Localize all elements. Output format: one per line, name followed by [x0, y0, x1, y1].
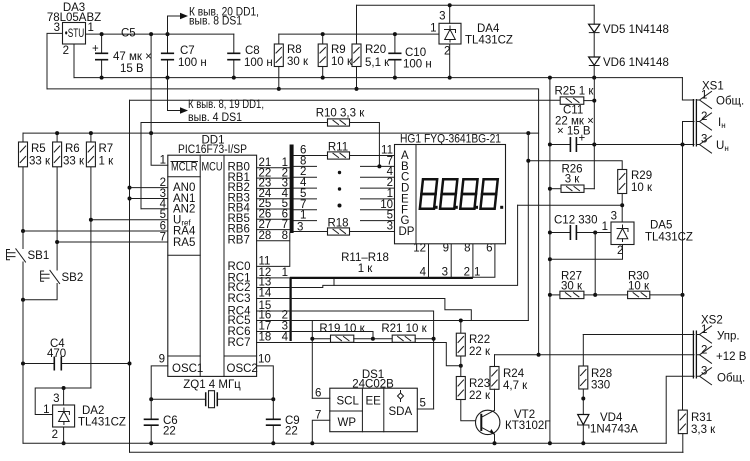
resistor R11 [328, 142, 395, 160]
wire RC5 SCL line [311, 321, 313, 399]
svg-text:1: 1 [474, 267, 480, 279]
junction C6 bottom [149, 441, 153, 445]
junction SB2 to SB1 column [21, 298, 25, 302]
svg-text:2: 2 [701, 111, 707, 123]
microcontroller DD1 PIC16F73 [168, 135, 258, 377]
junction RA5 SB2 [55, 240, 59, 244]
svg-text:1N4743A: 1N4743A [590, 424, 638, 436]
svg-text:RC3: RC3 [228, 293, 251, 305]
capacitor C10 [388, 34, 431, 78]
svg-text:3: 3 [701, 366, 707, 378]
svg-text:К выв. 8, 19 DD1,: К выв. 8, 19 DD1, [188, 99, 264, 111]
wire RA5 line [57, 241, 168, 243]
resistor R30 [595, 271, 682, 299]
svg-text:5: 5 [420, 398, 426, 410]
svg-text:RC7: RC7 [228, 337, 251, 349]
svg-text:VD6 1N4148: VD6 1N4148 [603, 57, 669, 69]
svg-text:× 15 В: × 15 В [557, 126, 591, 138]
svg-text:EE: EE [366, 396, 382, 408]
svg-text:R21 10 к: R21 10 к [381, 323, 427, 335]
svg-text:DA5: DA5 [650, 220, 672, 232]
wire +5V rail from DA3 output [86, 33, 234, 35]
junction C11 left [548, 143, 552, 147]
junction R7 top [89, 131, 93, 135]
svg-text:WP: WP [338, 417, 357, 429]
junction R9 bottom [321, 76, 325, 80]
junction C10 bottom [393, 76, 397, 80]
resistor R23 [456, 366, 491, 421]
junction AN0 on sense column [128, 186, 132, 190]
svg-text:8: 8 [282, 230, 288, 242]
svg-text:DP: DP [399, 226, 415, 238]
resistor R20 [352, 5, 390, 89]
svg-text:OSC2: OSC2 [227, 363, 258, 375]
junction R27 left [548, 293, 552, 297]
wire AN1 line [130, 198, 168, 200]
resistor R7 [86, 133, 114, 388]
junction C11 right [592, 143, 596, 147]
resistor R27 [550, 271, 595, 299]
DS1 pin7 wire [312, 420, 330, 443]
junction R22 top [459, 319, 463, 323]
node column from ground rail left [549, 78, 551, 444]
wire +5V feed down to pullup rail [150, 34, 152, 133]
wire AN2 line [141, 208, 168, 210]
wire R29 top line [528, 161, 622, 170]
connector XS1 [693, 81, 744, 154]
junction R6 top [55, 131, 59, 135]
resistor R21 [381, 323, 433, 342]
wire DA3 pin2 to ground rail [73, 44, 75, 78]
wire DA3 pin3 input to +12 line [47, 33, 63, 89]
svg-text:1: 1 [300, 210, 306, 222]
junction pullup rail +5 feed [149, 131, 153, 135]
wire RA4 line [23, 230, 168, 232]
svg-text:1: 1 [602, 221, 608, 233]
node column VD6 R25 [593, 78, 595, 189]
junction C10 top [393, 32, 397, 36]
svg-text:R6: R6 [65, 143, 80, 155]
resistor R19 [312, 323, 392, 342]
svg-text:28: 28 [259, 230, 272, 242]
svg-text:+: + [92, 43, 99, 55]
ellipsis dots for R12-R17 [338, 171, 342, 208]
svg-text:MCLR: MCLR [171, 162, 198, 174]
junction DA4 pin2 on ground rail [448, 76, 452, 80]
svg-text:Упр.: Упр. [717, 331, 740, 343]
connector XS2 [693, 315, 746, 385]
junction R9 top [321, 32, 325, 36]
resistor R18 [327, 218, 394, 236]
junction R29 bottom [620, 203, 624, 207]
wire R10 to segment B [350, 123, 380, 167]
junction C9 bottom [271, 441, 275, 445]
display pin numbers left column [380, 145, 393, 233]
DS1 pin5 wire [417, 408, 433, 410]
svg-text:3: 3 [387, 221, 393, 233]
junction node column ground [548, 441, 552, 445]
svg-text:15 В: 15 В [120, 63, 144, 75]
junction crystal left [149, 397, 153, 401]
svg-text:2: 2 [701, 344, 707, 356]
resistor R31 [678, 410, 716, 452]
svg-text:+12 В: +12 В [716, 351, 747, 363]
svg-text:КТ3102Г: КТ3102Г [505, 420, 551, 432]
zener diode VD4 1N4743A [578, 412, 639, 443]
svg-text:30 к: 30 к [287, 56, 309, 68]
display segment stubs right [361, 166, 395, 220]
junction C8 bottom [232, 76, 236, 80]
svg-text:1: 1 [701, 324, 707, 336]
junction R19 left [310, 337, 314, 341]
resistor R28 [579, 335, 612, 415]
junction C4 left on SB column [21, 362, 25, 366]
junction VD6 on ground rail [592, 76, 596, 80]
wire RC4 SDA line [257, 311, 434, 409]
svg-text:R31: R31 [691, 412, 712, 424]
wire R25 node line [130, 99, 561, 101]
junction R8 bottom on +12 line [277, 87, 281, 91]
bus left stubs to R11-R18 [294, 156, 328, 232]
svg-text:R10 3,3 к: R10 3,3 к [316, 108, 365, 120]
capacitor C8 [227, 34, 273, 78]
bus bar R11-R18 [290, 145, 294, 234]
junction R21 right [432, 337, 436, 341]
wire sense column [129, 100, 131, 452]
svg-text:10 к: 10 к [631, 182, 653, 194]
wire top line to VD5 [357, 4, 595, 6]
capacitor C6 [144, 399, 178, 443]
svg-text:22 к: 22 к [469, 346, 491, 358]
shunt regulator DA5 TL431CZ [602, 211, 693, 258]
wire RC2 to DA5 cathode [257, 205, 518, 287]
svg-text:22: 22 [163, 426, 176, 438]
svg-text:RA4: RA4 [173, 225, 196, 237]
wire DA4 reference line [279, 33, 439, 35]
label R11-R18 value [341, 252, 389, 275]
junction +12 column on pullup line [526, 131, 530, 135]
junction VT2 emitter ground [493, 441, 497, 445]
svg-text:R18: R18 [327, 218, 348, 230]
junction C7 top [166, 32, 170, 36]
svg-text:C7: C7 [180, 45, 195, 57]
svg-text:HG1 FYQ-3641BG-21: HG1 FYQ-3641BG-21 [400, 134, 501, 146]
arrow to pin 20 DD1 power [168, 7, 260, 35]
svg-text:22: 22 [285, 426, 298, 438]
svg-text:4: 4 [420, 267, 427, 279]
capacitor C4 [23, 338, 130, 371]
svg-text:4,7 к: 4,7 к [503, 380, 528, 392]
svg-text:3: 3 [439, 11, 445, 23]
svg-text:3: 3 [54, 22, 60, 34]
shunt regulator DA2 TL431CZ [43, 388, 126, 443]
DD1 left pin numbers [159, 155, 271, 366]
junction R20 bottom on +12 line [355, 87, 359, 91]
wire pin11 to bus [257, 233, 290, 266]
junction column top [548, 76, 552, 80]
display bus wire numbers bottom [420, 267, 481, 279]
junction C12 left [548, 231, 552, 235]
junction R29 line column [526, 159, 530, 163]
diode VD6 1N4148 [589, 57, 669, 78]
junction C5 bottom [100, 76, 104, 80]
svg-text:R28: R28 [591, 368, 612, 380]
svg-text:R5: R5 [31, 143, 46, 155]
svg-text:R24: R24 [503, 368, 525, 380]
svg-text:14: 14 [259, 288, 272, 300]
svg-text:2: 2 [63, 45, 69, 57]
voltage regulator DA3 78L05ABZ [47, 2, 101, 57]
svg-text:RB7: RB7 [228, 235, 250, 247]
wire RC3 line [257, 299, 472, 321]
svg-text:SDA: SDA [389, 406, 413, 418]
wire +12V line [47, 89, 539, 355]
wire Uref line [91, 219, 168, 221]
svg-text:3: 3 [611, 211, 617, 223]
svg-text:C5: C5 [121, 28, 136, 40]
wire OSC1 pin9 [151, 366, 168, 399]
svg-text:6: 6 [315, 388, 321, 400]
svg-text:1 к: 1 к [99, 156, 115, 168]
wire Upr line [583, 334, 694, 336]
svg-text:470: 470 [47, 348, 66, 360]
svg-text:10 к: 10 к [331, 56, 353, 68]
svg-text:R11: R11 [328, 142, 348, 154]
svg-text:OSC1: OSC1 [172, 363, 203, 375]
resistor R10 [316, 108, 365, 127]
svg-text:TL431CZ: TL431CZ [465, 35, 513, 47]
svg-text:11: 11 [259, 255, 271, 267]
resistor R25 [555, 86, 595, 105]
svg-text:100 н: 100 н [178, 57, 207, 69]
svg-text:330: 330 [591, 380, 610, 392]
wire pullup rail [23, 132, 539, 134]
resistor R5 [19, 133, 51, 231]
capacitor C11 [550, 105, 594, 153]
display digits 8888 [420, 179, 498, 209]
junction Uref R7 [89, 218, 93, 222]
wire RC6 line [257, 332, 373, 339]
svg-text:R29: R29 [631, 170, 652, 182]
junction DA5 pin1 [593, 231, 597, 235]
wire RC7 line [257, 343, 461, 366]
svg-text:7: 7 [315, 410, 321, 422]
junction RA4 SB1 [21, 229, 25, 233]
svg-text:Общ.: Общ. [717, 373, 745, 385]
svg-text:100 н: 100 н [244, 57, 273, 69]
svg-text:22 к: 22 к [469, 390, 491, 402]
svg-text:6: 6 [160, 220, 166, 232]
junction AN1 on sense column [128, 197, 132, 201]
capacitor C5 [92, 28, 152, 78]
svg-text:R25 1 к: R25 1 к [555, 86, 595, 98]
pushbutton SB1 [7, 231, 50, 300]
junction VD4 ground [581, 441, 585, 445]
svg-text:TL431CZ: TL431CZ [78, 417, 126, 429]
svg-text:+: + [579, 133, 586, 145]
diode VD5 1N4148 [589, 5, 669, 57]
svg-text:R7: R7 [99, 143, 114, 155]
wire display digit columns [429, 244, 473, 277]
svg-text:•STU: •STU [65, 28, 85, 40]
svg-text:10: 10 [258, 354, 271, 366]
svg-text:C12 330: C12 330 [554, 215, 597, 227]
svg-text:1: 1 [43, 404, 49, 416]
svg-text:2: 2 [444, 46, 450, 58]
display decimal points [435, 206, 504, 209]
wire DA5 pin2 anode [550, 245, 623, 260]
crystal ZQ1 4 MHz [151, 379, 273, 408]
wire +12V rail to XS2 [495, 354, 695, 356]
svg-text:7: 7 [282, 219, 288, 231]
junction R25 right [592, 99, 596, 103]
wire XS1 pin1 drop [682, 78, 694, 100]
svg-text:RB6: RB6 [228, 223, 250, 235]
svg-text:5,1 к: 5,1 к [365, 57, 390, 69]
wire bottom sense rail [130, 451, 684, 453]
svg-text:100 н: 100 н [403, 59, 432, 71]
junction DA2 pin2 on rail [62, 441, 66, 445]
junction R22 R23 [459, 364, 463, 368]
svg-text:3: 3 [442, 267, 448, 279]
svg-text:ZQ1 4 МГц: ZQ1 4 МГц [183, 379, 241, 391]
svg-text:1: 1 [701, 90, 707, 102]
wire AN0 line [130, 187, 168, 189]
DD1 right pin numbers 21-28 [259, 157, 272, 242]
DS1 pin6 wire [312, 397, 330, 399]
DD1 right pin wires 21-28 [257, 168, 290, 241]
arrow to pin 8 19 DD1 ground [168, 78, 265, 124]
svg-text:3: 3 [701, 134, 707, 146]
svg-text:2: 2 [464, 267, 470, 279]
svg-text:TL431CZ: TL431CZ [645, 232, 693, 244]
wire XS1 pin2 drop [683, 122, 695, 145]
junction crystal right [271, 397, 275, 401]
wire XS2 pin3 obsh [666, 376, 694, 443]
svg-text:SB2: SB2 [62, 272, 84, 284]
svg-text:7: 7 [160, 232, 166, 244]
wire R10 AN2 line [141, 123, 328, 209]
svg-text:SCL: SCL [337, 396, 360, 408]
svg-text:RA5: RA5 [173, 237, 195, 249]
junction C7 bottom [166, 76, 170, 80]
transistor VT2 KT3102 [476, 409, 552, 443]
svg-text:DA2: DA2 [82, 405, 104, 417]
junction R27 right [593, 293, 597, 297]
junction DS1 pin7 ground [310, 441, 314, 445]
svg-text:RC0: RC0 [228, 261, 251, 273]
svg-text:выв. 8 DS1: выв. 8 DS1 [189, 16, 242, 28]
display bottom pin numbers [413, 243, 492, 255]
svg-text:9: 9 [159, 354, 165, 366]
capacitor C9 [266, 399, 300, 443]
svg-text:3 к: 3 к [565, 174, 581, 186]
resistor R8 [274, 34, 309, 89]
bus stub numbers [300, 145, 307, 222]
svg-text:18: 18 [259, 332, 272, 344]
junction C4 right on sense column [128, 362, 132, 366]
junction R19 R21 middle [371, 337, 375, 341]
svg-text:MCU: MCU [202, 162, 223, 174]
svg-text:1 к: 1 к [358, 263, 374, 275]
display bus thick drop [289, 278, 291, 341]
svg-text:Общ.: Общ. [716, 96, 744, 108]
wire Un line to connector [594, 144, 694, 146]
junction DA4 pin3 on top line [448, 3, 452, 7]
junction +5 feed [149, 32, 153, 36]
resistor R9 [318, 34, 353, 78]
resistor R26 [550, 164, 594, 193]
wire OSC2 pin10 [257, 366, 274, 399]
wire pin12 to display bus [257, 277, 290, 279]
resistor R6 [53, 133, 85, 242]
display HG1 FYQ-3641BG-21 [395, 134, 506, 244]
wire ground rail [74, 77, 682, 79]
wire R22 top line [257, 320, 529, 322]
DD1 lower pin numbers 11-18 [259, 255, 272, 343]
svg-text:VD4: VD4 [600, 412, 623, 424]
junction +12 column rail [537, 353, 541, 357]
junction DA5 pin2 column [548, 257, 552, 261]
capacitor C12 [550, 215, 598, 241]
svg-text:R20: R20 [365, 44, 386, 56]
resistor R22 [456, 321, 491, 366]
svg-text:4: 4 [282, 332, 289, 344]
svg-text:R23: R23 [469, 378, 490, 390]
junction Un R31 column [681, 143, 685, 147]
pushbutton SB2 [23, 242, 83, 300]
svg-text:DA4: DA4 [477, 23, 500, 35]
svg-text:PIC16F73-I/SP: PIC16F73-I/SP [178, 144, 247, 156]
svg-text:C8: C8 [245, 45, 260, 57]
wire DA5 cathode line [518, 205, 623, 222]
wire display digit 4 tail [473, 244, 495, 277]
node column DA5 area [527, 133, 529, 320]
junction DA2 pin3 [62, 386, 66, 390]
svg-text:1: 1 [282, 267, 288, 279]
display bus thick line [290, 277, 473, 279]
svg-text:VD5 1N4148: VD5 1N4148 [603, 24, 669, 36]
capacitor C7 [161, 34, 207, 78]
svg-text:1: 1 [88, 22, 94, 34]
svg-text:1: 1 [430, 23, 436, 35]
wire SB column down to rail [22, 300, 24, 444]
svg-text:R22: R22 [469, 334, 490, 346]
svg-text:33 к: 33 к [29, 156, 51, 168]
svg-text:2: 2 [52, 429, 58, 441]
eeprom DS1 24C02B [330, 369, 418, 432]
junction R28 VD4 [581, 397, 585, 401]
wire ground return rail [23, 442, 666, 444]
svg-text:47 мк ×: 47 мк × [113, 51, 152, 63]
svg-text:AN2: AN2 [173, 203, 195, 215]
svg-text:C10: C10 [405, 47, 426, 59]
svg-text:3: 3 [53, 393, 59, 405]
node column R30 to R31 [682, 145, 684, 411]
svg-text:27: 27 [259, 219, 272, 231]
shunt regulator DA4 TL431CZ [430, 5, 513, 77]
bus wire numbers 1-8 [282, 157, 289, 242]
wire bus tap [333, 279, 335, 285]
svg-text:33 к: 33 к [63, 156, 85, 168]
svg-text:3,3 к: 3,3 к [691, 424, 716, 436]
wire MCLR pin1 [151, 133, 168, 165]
resistor R24 [490, 355, 528, 411]
junction R26 left [548, 187, 552, 191]
wire DA5 pin1 to divider [595, 233, 611, 295]
svg-text:R19 10 к: R19 10 к [319, 323, 365, 335]
svg-text:R8: R8 [287, 44, 302, 56]
